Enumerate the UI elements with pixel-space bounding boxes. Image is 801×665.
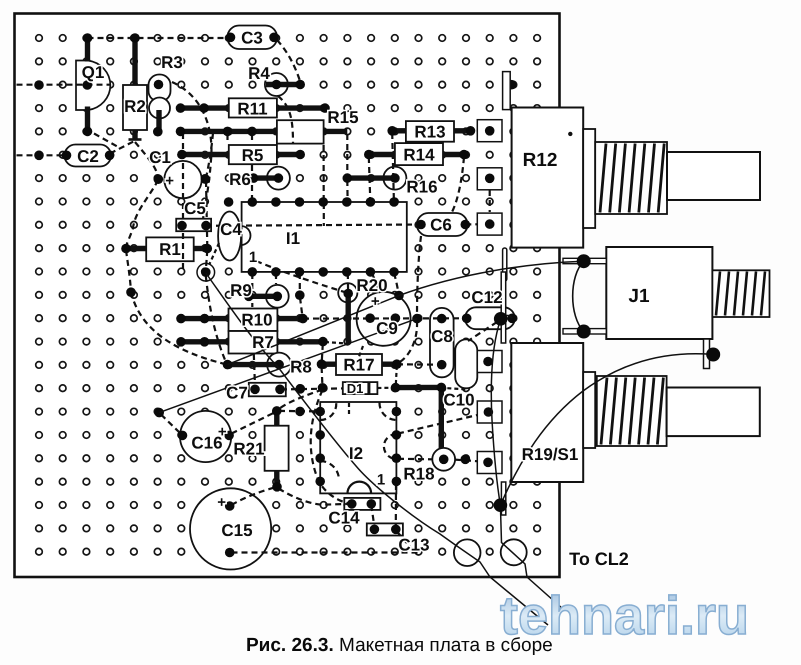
wire R10 leads (181, 316, 229, 321)
svg-text:C12: C12 (471, 288, 502, 307)
wire R6 lead (254, 175, 279, 180)
diode D1 (343, 382, 378, 394)
svg-text:R9: R9 (230, 281, 252, 300)
resistor R17 (336, 354, 382, 375)
capacitor C10 (455, 339, 477, 388)
svg-text:C7: C7 (226, 384, 248, 403)
svg-text:R4: R4 (248, 64, 270, 83)
dashed wire R9 node to R10 bus (300, 298, 303, 318)
svg-text:C4: C4 (220, 220, 242, 239)
capacitor C9 (357, 292, 411, 346)
wire bus R15 row (181, 129, 278, 134)
dashed wire node to C16 (161, 415, 180, 434)
resistor R10 (229, 309, 278, 332)
wire bus to R16 (347, 175, 395, 180)
IC I1 (242, 202, 407, 272)
jack J1 pin strips (563, 258, 606, 263)
IC I1 pins (248, 197, 258, 207)
dashed wire R13 to I1 pin (392, 133, 394, 201)
dashed wire R13 to lug (471, 130, 478, 132)
resistor R14 (395, 143, 443, 165)
wire R2 bottom lead (132, 130, 137, 139)
wire W1 node to node (159, 319, 417, 413)
capacitor C1 (164, 161, 201, 198)
potentiometer R12 shaft (667, 152, 760, 200)
resistor R5 (229, 145, 277, 164)
dashed wire C5 C4 I1 C6 row (206, 225, 421, 226)
jack J1 body (606, 247, 712, 339)
svg-text:tehnari.ru: tehnari.ru (500, 586, 749, 646)
IC I2 (320, 402, 396, 493)
dashed arc R3 to C5 (172, 82, 211, 219)
svg-text:R16: R16 (406, 178, 437, 197)
svg-text:+: + (165, 173, 174, 190)
svg-text:C9: C9 (376, 319, 398, 338)
dashed wire R21 to C14 row (279, 489, 351, 505)
potentiometer R19/S1 flange (583, 372, 595, 448)
dashed wire R1 to node (126, 250, 131, 292)
dashed arcs inside I2 (320, 403, 336, 421)
dashed wire R17 to D1 node (396, 366, 397, 385)
potentiometer R12 lugs (477, 120, 502, 142)
svg-text:C14: C14 (328, 509, 360, 528)
dashed bottom row (232, 551, 419, 553)
wire D1 to C10 bar (396, 385, 442, 391)
capacitor C12 (465, 307, 515, 329)
svg-text:C1: C1 (149, 148, 171, 167)
resistor R1 (146, 237, 194, 261)
wire R8 lead (228, 362, 280, 367)
svg-text:R17: R17 (343, 356, 374, 375)
IC I2 pins (315, 407, 325, 417)
svg-text:R10: R10 (241, 311, 272, 330)
capacitor C7 (249, 383, 286, 397)
potentiometer R19/S1 lugs (477, 351, 502, 373)
dashed wire bus to R16 (346, 134, 348, 176)
capacitor C14 (344, 498, 380, 510)
svg-text:R5: R5 (242, 146, 264, 165)
resistor R7 (229, 331, 278, 354)
svg-text:1: 1 (249, 249, 257, 266)
resistor R6 (267, 167, 290, 190)
dashed wire C2 to R2 (110, 142, 134, 154)
svg-text:C8: C8 (431, 327, 453, 346)
resistor R20 (338, 283, 357, 302)
dashed wire C15 to R21 (232, 488, 276, 506)
potentiometer R12 flange (583, 129, 595, 228)
resistor R15 (277, 120, 324, 143)
resistor R9 (266, 285, 289, 308)
svg-text:R6: R6 (229, 170, 251, 189)
jack J1 bushing (712, 270, 769, 317)
resistor R3 (149, 75, 171, 102)
dashed wire C14 to C13 (371, 505, 374, 527)
resistor R18 (432, 448, 455, 471)
dashed wire lug2 to lug3 (489, 190, 491, 212)
svg-text:C5: C5 (184, 199, 206, 218)
mounting hole left (454, 539, 481, 566)
dashed wire R21 to I2 row (279, 410, 318, 413)
dashed wire R21 node to C14 (279, 390, 323, 410)
potentiometer R19/S1 bushing (597, 376, 667, 446)
svg-text:+: + (217, 494, 226, 511)
svg-text:1: 1 (377, 472, 385, 489)
dashed arc node to R17 (398, 321, 417, 363)
capacitor C13 (367, 523, 403, 535)
dashed wire R5 to I1 pin (251, 165, 253, 201)
jack J1 lower tab (704, 339, 710, 369)
svg-text:C6: C6 (430, 216, 452, 235)
svg-text:R1: R1 (159, 240, 181, 259)
dashed arc pad to R8 (206, 276, 227, 365)
svg-text:I1: I1 (286, 229, 300, 248)
svg-text:R8: R8 (290, 358, 312, 377)
svg-text:R3: R3 (161, 53, 183, 72)
svg-text:J1: J1 (628, 286, 650, 307)
dashed wire top row (88, 37, 228, 39)
svg-text:R18: R18 (403, 465, 434, 484)
dashed wire I2 to R18 (398, 458, 432, 461)
dashed circle pad (197, 263, 215, 281)
hole grid (36, 35, 541, 555)
arc C12 dots (501, 315, 512, 319)
wire J1 pin arc (573, 261, 584, 331)
wire bus R11 row (181, 105, 229, 110)
resistor R8 (267, 353, 291, 377)
capacitor C6 (417, 213, 468, 236)
resistor R13 (406, 121, 454, 142)
dashed arc D1 node around I2 to C14 (311, 390, 349, 504)
resistor R11 (229, 98, 277, 117)
svg-text:R2: R2 (124, 97, 146, 116)
dashed arc C4 to pad (210, 243, 220, 264)
wire R4 lead (266, 82, 300, 87)
resistor R2 (123, 85, 147, 130)
dashed wire C6 to node (417, 236, 421, 317)
dashed wire C13 to bottom row (397, 531, 417, 553)
dashed R7 to R20 (325, 342, 346, 344)
dashed wire C10 to bar (444, 388, 465, 389)
wire R13 leads (392, 128, 406, 133)
dashed wire I2 to lug mid (398, 413, 486, 434)
dashed wire inside I1 (323, 203, 325, 226)
wire R1 leads (126, 246, 146, 251)
svg-text:C15: C15 (221, 521, 252, 540)
dashed wire C16 to R21 (232, 413, 275, 434)
dashed wire C3 to R4 (277, 40, 300, 81)
wire R2 top lead (132, 36, 137, 86)
potentiometer R12 bushing (595, 142, 667, 214)
perfboard outline (15, 14, 560, 578)
capacitor C8 (430, 308, 454, 377)
dashed wire R15 to I1 pin (323, 145, 325, 201)
dashed column three nodes (322, 344, 323, 361)
svg-text:R19/S1: R19/S1 (522, 445, 579, 464)
capacitor C4 bump (241, 226, 251, 245)
resistor R21 (265, 426, 289, 471)
svg-text:R12: R12 (523, 150, 558, 171)
svg-text:R11: R11 (237, 100, 267, 119)
svg-text:Q1: Q1 (82, 63, 105, 82)
dashed wire C13 to I2 pin (395, 484, 397, 527)
svg-text:C2: C2 (77, 147, 99, 166)
dashed wire R4 down to R5 (278, 96, 293, 143)
wire R14 leads (369, 152, 395, 157)
capacitor C16 (180, 411, 231, 462)
wire W4 C12 to bottom (491, 320, 563, 609)
dashed wire R7 to C7 (254, 354, 255, 381)
resistor R16 (383, 167, 406, 190)
transistor Q1 (76, 61, 110, 111)
dashed wire R2 to C1 (135, 142, 158, 179)
wire R3 lead (156, 110, 161, 131)
dashed row R17 C8 (397, 363, 441, 366)
potentiometer R12 body (512, 108, 584, 248)
svg-text:C13: C13 (398, 536, 429, 555)
dashed wire bus to C1 right (206, 133, 213, 179)
wire R7 leads (181, 339, 229, 344)
wire C10 bar (439, 387, 444, 448)
svg-text:R21: R21 (233, 440, 264, 459)
svg-text:R13: R13 (414, 123, 445, 142)
svg-text:R15: R15 (327, 108, 358, 127)
potentiometer R19/S1 body (511, 343, 583, 482)
wire bus R5 row (182, 152, 229, 157)
svg-text:R14: R14 (403, 146, 435, 165)
wire Q1 bottom lead (85, 107, 90, 132)
capacitor C2 (65, 145, 112, 167)
svg-text:+: + (371, 293, 380, 310)
potentiometer R12 bracket tabs (503, 72, 511, 110)
R19 upper bracket tab (501, 272, 506, 343)
dashed wire C1 to R1 right (206, 181, 207, 247)
svg-text:To CL2: To CL2 (569, 549, 629, 569)
dashed wire left edge row3 (17, 84, 112, 86)
big solder dots (494, 312, 508, 326)
wire R21 leads (274, 411, 279, 426)
wire W3 pad to bottom (206, 273, 548, 625)
svg-text:I2: I2 (349, 444, 363, 463)
dashed wire C12 to C10 (468, 322, 497, 341)
dashed wire R14 to I1 pin (369, 157, 371, 201)
resistor R4 (265, 73, 288, 96)
dashed wire R16 to I1 pin (346, 180, 349, 201)
wire W5 bottom to J1 tab (500, 354, 713, 505)
svg-text:+: + (218, 424, 227, 441)
dashed wire R1 to pad (206, 250, 207, 268)
wire R20 lead (346, 294, 351, 345)
capacitor C15 (190, 488, 271, 569)
dashed arc node to R8 (131, 292, 227, 365)
R19 lower bracket tab (501, 482, 505, 515)
dashed wires I1 pins down (251, 273, 253, 307)
wire R9 lead (249, 294, 277, 299)
potentiometer R19/S1 shaft (667, 388, 760, 437)
dashed wire R14 to C6 (452, 157, 464, 212)
capacitor C4 (218, 212, 241, 261)
dashed arc I1 pin1 to R20 (256, 261, 346, 293)
dashed arc C1 to R1 (126, 180, 158, 249)
dashed wire column C1/C5 (182, 133, 184, 270)
solder joints (83, 33, 93, 43)
svg-text:C3: C3 (241, 29, 263, 48)
wire R17 leads (322, 362, 337, 367)
dashed row C7 to D1 (281, 388, 343, 389)
svg-text:D1: D1 (347, 381, 364, 396)
wire W2 R8 to J1 pin (228, 261, 584, 364)
wire Q1 top lead (85, 36, 90, 62)
mounting hole right (501, 539, 527, 565)
capacitor C5 (176, 219, 211, 232)
dashed wire Q1 to C2 (94, 134, 120, 149)
svg-text:C10: C10 (443, 391, 474, 410)
dashed C9 to R17 (357, 346, 363, 362)
dashed wire left edge C2 row (17, 154, 66, 156)
svg-text:R7: R7 (252, 333, 274, 352)
capacitor C3 (228, 26, 278, 50)
dashed wire R18 to lug (455, 460, 486, 462)
dashed row C9 C8 C12 (303, 317, 467, 320)
